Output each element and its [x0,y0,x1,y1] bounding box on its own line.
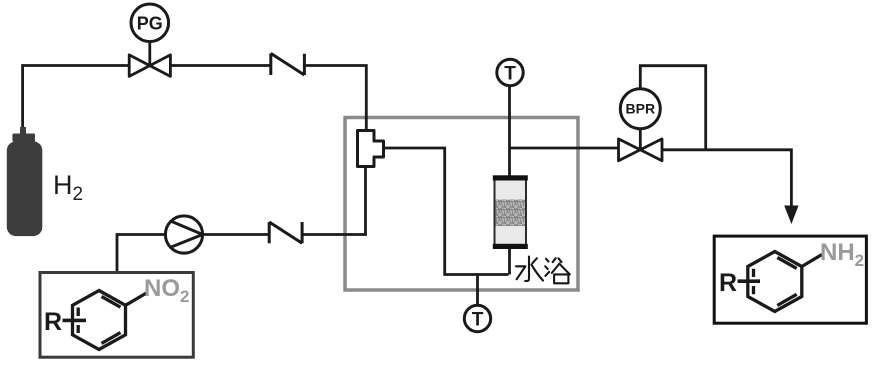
svg-text:R: R [719,269,737,297]
double bond left (split by R bond) [752,269,755,295]
bond to NH2 [802,255,822,267]
double bond top-right [102,297,121,308]
svg-text:R: R [44,308,62,336]
R attachment bond [63,319,87,323]
bypass loop wire [640,66,705,150]
svg-text:PG: PG [137,14,163,34]
wire valve V2 to outlet corner [662,150,791,208]
valve V2 (back pressure valve) [619,139,663,161]
water bath label 水浴 (drawn glyphs) [516,257,570,284]
wire column top to thermometer T (top) [508,86,511,176]
wire T-mixer outlet to column bottom [384,148,509,275]
valve V1 (H2 regulating valve) [129,55,170,77]
H2 gas cylinder [7,127,43,236]
wire cylinder to valve V1 [23,66,130,128]
BPR circle [620,89,660,129]
thermometer T (top) [497,59,523,85]
outlet arrow head [784,206,798,225]
double bond bottom-right [102,333,121,344]
product benzene ring [738,252,823,312]
svg-text:T: T [472,310,484,331]
wire CV1 to T-mixer inlet [304,66,366,131]
wire valve V1 to check valve CV1 [170,64,271,67]
check valve CV2 [269,222,302,243]
thermometer T (bottom) [464,305,490,331]
R attachment bond [738,279,761,283]
wire riser into column bottom [508,246,511,275]
svg-text:T: T [504,64,516,85]
bond to NO2 [126,293,147,305]
substrate reservoir box [40,273,193,358]
stem BPR to valve V2 [639,129,642,150]
double bond top-right [777,258,796,269]
pump P1 [165,216,202,253]
check valve CV1 [271,53,305,75]
wire branch to bottom thermometer [476,275,479,306]
wire pump to check valve CV2 [203,233,270,236]
substrate feed wire from reservoir to pump [117,235,166,273]
svg-text:BPR: BPR [626,101,656,117]
double bond left (split by R bond) [77,308,80,334]
wire CV2 to T-mixer bottom [302,167,365,235]
water bath box [345,118,578,291]
product box [714,236,866,323]
stem valve to PG [148,42,151,66]
wire column to BPR valve [510,147,619,150]
double bond bottom-right [777,294,796,305]
pressure gauge PG [131,4,169,42]
T-mixer [358,131,384,167]
substrate benzene ring [63,291,147,350]
